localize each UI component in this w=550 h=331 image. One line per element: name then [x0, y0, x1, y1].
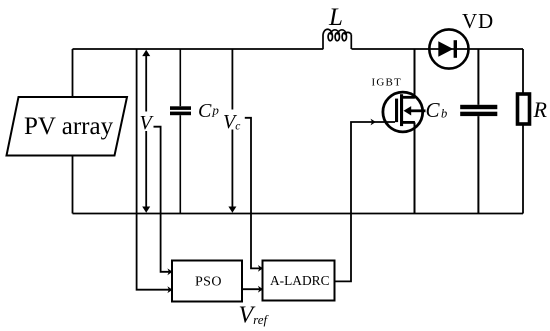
wire: PV array negative lead	[72, 156, 74, 214]
block A-LADRC	[263, 261, 335, 301]
PV array block	[7, 97, 128, 156]
wire: top rail left segment	[73, 48, 324, 50]
resistor R	[518, 94, 530, 124]
capacitor Cp	[170, 49, 191, 214]
wire: A-LADRC output to IGBT gate	[335, 122, 396, 281]
node Vc measurement arrow	[228, 49, 236, 213]
wire: top rail right segment	[352, 48, 524, 50]
wire: bottom rail	[73, 213, 524, 215]
wire: IGBT source to bottom rail	[414, 122, 416, 213]
svg-text:L: L	[328, 4, 343, 31]
diode VD	[429, 29, 468, 68]
capacitor C output	[460, 49, 497, 214]
svg-text:PSO: PSO	[195, 275, 222, 290]
block PSO	[172, 261, 242, 302]
wire: PV array positive lead	[72, 49, 74, 97]
wire: right rail top	[522, 49, 524, 94]
transistor IGBT (MOSFET symbol)	[383, 92, 426, 132]
label Vc	[223, 110, 245, 134]
label V	[139, 112, 156, 135]
svg-text:A-LADRC: A-LADRC	[270, 273, 330, 288]
wire: IGBT drain to top rail	[414, 49, 416, 97]
wire: PSO output to A-LADRC	[242, 288, 260, 290]
wire: Vc sense line to A-LADRC input	[245, 118, 260, 269]
wire: V sense line to PSO upper input	[154, 127, 170, 272]
node V measurement arrow	[142, 50, 150, 213]
wire: input voltage sense to PSO lower input	[137, 49, 169, 290]
svg-text:VD: VD	[462, 9, 494, 33]
svg-text:R: R	[533, 97, 548, 122]
svg-text:PV array: PV array	[24, 113, 114, 140]
svg-text:IGBT: IGBT	[372, 77, 402, 89]
inductor L	[323, 29, 351, 49]
wire: right rail bottom	[522, 124, 524, 214]
